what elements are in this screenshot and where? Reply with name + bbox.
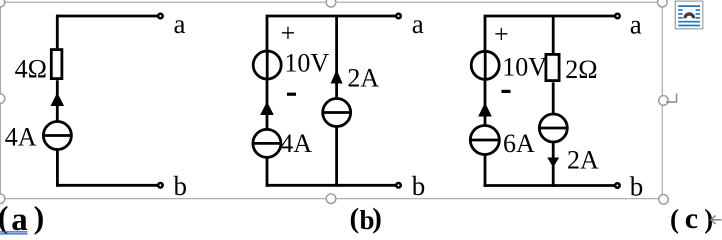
svg-text:(: ( [350,203,360,235]
wire: left branch lower [484,155,487,187]
current source 6A [470,126,499,155]
current source 2A [323,99,351,127]
svg-text:a: a [174,9,186,39]
wire: top left vertical [56,15,59,49]
resistor 4Ω [51,50,62,79]
svg-text:+: + [494,20,509,49]
current direction arrow (up) [331,70,343,84]
svg-text:4A: 4A [280,129,312,158]
svg-text:a: a [412,9,424,39]
svg-text:10V: 10V [502,53,547,82]
svg-text:): ) [34,199,45,235]
wire: top horizontal a [485,15,615,18]
current source 4A [253,129,281,157]
svg-text:+: + [281,19,296,48]
wire: left branch upper [484,15,487,52]
selection handles (decorative) [0,0,668,204]
terminal b [615,183,620,188]
svg-text:b: b [412,171,426,201]
wire: middle branch upper [552,16,555,54]
wire: top horizontal a [267,15,396,18]
svg-text:a: a [11,202,28,238]
terminal b [396,183,401,188]
current direction arrow (up) [51,93,65,107]
voltage source 10V [253,51,281,79]
line break mark [711,216,722,225]
current direction arrow (down) [547,158,559,168]
current direction arrow (up) [478,103,492,117]
svg-text:2A: 2A [347,64,379,93]
wire: between sources [266,79,269,130]
wire: source to bottom [552,142,555,187]
svg-text:b: b [630,172,644,202]
svg-text:10V: 10V [284,48,329,77]
label - [287,93,296,96]
caption (b) [350,203,382,236]
svg-text:c: c [685,202,698,235]
resistor 2Ω [546,54,559,80]
wire: bottom horizontal b [56,184,158,187]
wire: resistor to source [552,82,555,114]
wire: middle branch upper [335,16,338,99]
wire: middle branch lower [335,127,338,187]
svg-text:4Ω: 4Ω [15,54,47,83]
wire: left branch lower [266,157,269,186]
current source 4A [43,122,71,150]
label - [502,90,511,93]
voltage source 10V [471,51,499,79]
caption (c) [670,202,713,235]
svg-text:6A: 6A [503,129,535,158]
wire: bottom horizontal b [484,184,615,187]
svg-text:): ) [372,203,382,235]
current direction arrow (up) [260,102,274,116]
wire: source to bottom [56,150,59,187]
wire: left branch upper [266,15,269,51]
wire: bottom horizontal b [266,184,396,187]
svg-text:a: a [630,10,642,40]
terminal a [615,14,620,19]
layout options button [675,1,703,29]
paragraph wrap mark [666,94,677,103]
terminal b [158,183,163,188]
terminal a [158,14,163,19]
svg-text:2A: 2A [567,146,599,175]
svg-text:(: ( [0,199,8,235]
wire: top horizontal a [57,15,157,18]
caption (a) [0,199,44,238]
svg-text:b: b [174,171,188,201]
svg-text:4A: 4A [5,123,37,152]
wire: between sources [484,79,487,125]
grammar underline (blue double) [0,232,28,234]
current source 2A [539,114,567,142]
selection frame (decorative) [0,2,662,199]
svg-text:2Ω: 2Ω [565,55,597,84]
svg-text:(: ( [670,204,679,234]
terminal a [396,14,401,19]
wire: resistor to source [56,80,59,122]
